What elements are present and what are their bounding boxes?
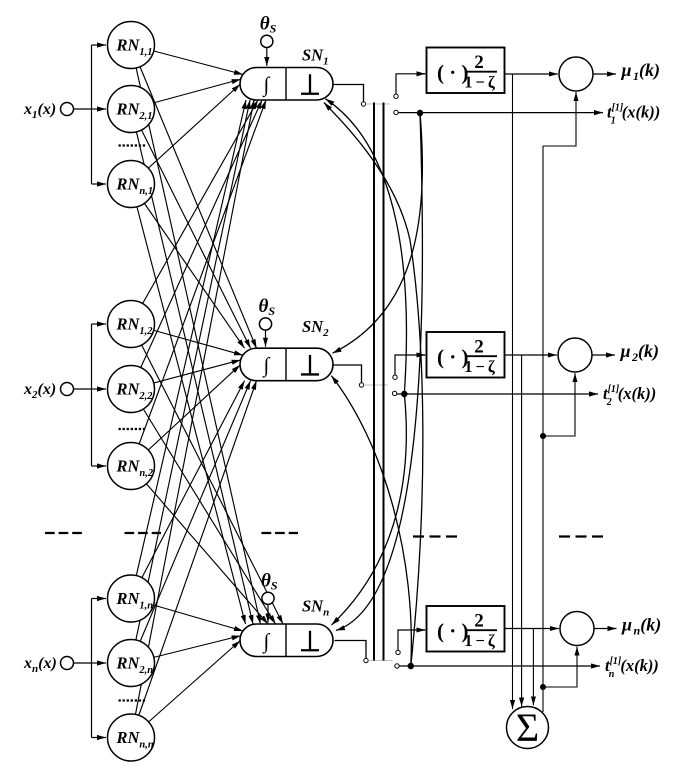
wire block n feedback down [532, 629, 534, 706]
wire branch to RNn,n [92, 737, 107, 739]
SN2 divider [285, 348, 287, 381]
wire tn feedback to SN2 [331, 376, 411, 666]
wire mu1 output [593, 73, 616, 75]
wire RNn,2 to SNn [131, 466, 268, 624]
bus line 2 [383, 103, 385, 661]
wire branch to RN2,2 [92, 388, 107, 390]
wire RN2,n to SN2 [131, 381, 251, 663]
wire SNn faint bridge [368, 660, 392, 662]
wire t2 feedback to SNn [332, 394, 407, 625]
svg-text:2: 2 [474, 52, 484, 73]
RN node RN2,2 [108, 366, 155, 413]
wire RN1,n to SN2 [131, 381, 245, 599]
wire theta_S to SNn [267, 604, 269, 622]
node SN2 output terminal [359, 383, 363, 387]
wire tap to block 1 [396, 74, 425, 94]
svg-text:μ2(k): μ2(k) [620, 341, 660, 364]
node t1 terminal [394, 110, 398, 114]
wire RNn,n to SN1 [131, 100, 254, 738]
wire theta_S to SN1 [266, 48, 268, 67]
RN node RN1,n [108, 575, 155, 622]
node tap to block 1 [394, 94, 398, 98]
wire SNn output elbow [335, 641, 367, 659]
RN node RNn,n [108, 714, 155, 761]
wire x2 branch vertical [91, 324, 93, 466]
junction tn [408, 663, 414, 669]
wire RN2,2 to SN1 [131, 100, 262, 389]
wire t2 line [397, 393, 591, 395]
dotted separator group 1 [119, 144, 146, 146]
input node x2 [61, 383, 74, 396]
wire t1 feedback to SN2 [333, 113, 423, 353]
tack symbol SN1 [301, 74, 319, 94]
wire RNn,1 to SN1 [131, 84, 240, 184]
continuation dashes 4 [413, 535, 457, 537]
tack symbol SNn [301, 631, 319, 651]
SN1 divider [285, 68, 287, 101]
svg-text:μn(k): μn(k) [621, 615, 661, 638]
wire SIGMA output vertical [542, 146, 544, 712]
label block 2 (.)2/(1-zeta) [437, 336, 498, 376]
wire RN2,2 to SNn [131, 389, 276, 624]
wire x2 input feed [74, 388, 92, 390]
wire RN2,n to SNn [131, 636, 241, 663]
input node x1 [61, 103, 74, 116]
wire branch to RN1,1 [92, 44, 107, 46]
svg-text:∫: ∫ [262, 629, 271, 654]
theta_S input circle SN2 [259, 318, 271, 330]
wire RNn,1 to SN2 [131, 184, 245, 348]
svg-text:1−ζ: 1−ζ [464, 357, 497, 376]
wire SIGMA to multiplier 1 [543, 93, 576, 147]
continuation dashes 3 [262, 532, 299, 534]
wire RNn,n to SN2 [131, 381, 257, 738]
label block n (.)2/(1-zeta) [437, 610, 498, 650]
node SNn output terminal [364, 658, 368, 662]
continuation dashes 2 [125, 532, 162, 534]
wire RN1,1 to SNn [131, 45, 261, 624]
wire RN1,2 to SNn [131, 324, 283, 624]
node SN1 output terminal [361, 102, 365, 106]
wire RN2,2 to SN2 [131, 360, 241, 389]
input node xn [61, 657, 74, 670]
summation node SIGMA [507, 707, 549, 749]
wire SN1 faint bridge [366, 103, 390, 105]
junction t2 [401, 391, 407, 397]
theta_S input circle SNn [262, 592, 274, 604]
SN unit SN2 body [240, 348, 333, 381]
wire xn input feed [74, 662, 92, 664]
wire t1 feedback to SNn [336, 113, 422, 631]
wire x1 branch vertical [91, 45, 93, 184]
SNn divider [285, 624, 287, 657]
svg-text:1−ζ: 1−ζ [464, 72, 497, 91]
wire block n to multiplier [505, 628, 559, 630]
junction t1 [417, 110, 423, 116]
wire SN2 faint bridge [364, 384, 388, 386]
gain block (1) 2/(1-z) [427, 48, 505, 94]
wire RNn,2 to SN1 [131, 100, 266, 466]
wire block 2 to multiplier [505, 354, 557, 356]
wire xn branch vertical [91, 599, 93, 738]
wire RN1,2 to SN1 [131, 100, 258, 324]
RN node RN2,1 [108, 86, 155, 133]
multiplier node row n [560, 612, 594, 646]
wire branch to RN2,n [92, 662, 107, 664]
svg-text:μ1(k): μ1(k) [621, 60, 661, 83]
node tap to block n [396, 650, 400, 654]
dotted separator group 3 [119, 699, 146, 701]
wire RN2,1 to SNn [131, 109, 253, 624]
wire block 1 feedback down [512, 74, 514, 709]
svg-text:∫: ∫ [262, 353, 271, 378]
gain block (n) 2/(1-z) [427, 606, 505, 652]
wire RN2,1 to SN2 [131, 109, 251, 348]
RN node RNn,2 [108, 443, 155, 490]
svg-text:2: 2 [474, 336, 484, 357]
RN node RN2,n [108, 640, 155, 687]
wire RN2,n to SN1 [131, 100, 250, 663]
wire RNn,1 to SNn [131, 184, 246, 624]
multiplier node row 1 [559, 57, 593, 91]
wire tn feedback to SN1 [324, 103, 423, 667]
wire tap to block n [398, 630, 425, 650]
wire tn line [399, 665, 593, 667]
wire SN2 output elbow [333, 365, 362, 383]
bus line 1 [373, 103, 375, 661]
node tap to block 2 [393, 375, 397, 379]
tack symbol SN2 [301, 355, 319, 375]
wire mu2 output [592, 354, 615, 356]
multiplier node row 2 [558, 338, 592, 372]
wire mun output [594, 628, 617, 630]
wire SN1 output elbow [333, 85, 364, 102]
svg-text:2: 2 [474, 610, 484, 631]
wire block 1 to multiplier [505, 73, 558, 75]
wire SIGMA to multiplier 2 [543, 374, 575, 437]
wire RN2,1 to SN1 [131, 79, 241, 109]
wire RNn,2 to SN2 [131, 365, 240, 466]
dotted separator group 2 [119, 428, 146, 430]
RN node RNn,1 [108, 161, 155, 208]
wire RN1,n to SNn [131, 599, 243, 632]
continuation dashes 1 [45, 532, 82, 534]
wire x1 input feed [74, 108, 92, 110]
node tn terminal [395, 664, 399, 668]
wire RNn,n to SNn [131, 641, 240, 738]
wire branch to RN2,1 [92, 108, 107, 110]
SN unit SN1 body [240, 68, 333, 101]
wire branch to RN1,2 [92, 323, 107, 325]
wire block 2 feedback down [521, 355, 523, 707]
wire RN1,n to SN1 [131, 100, 246, 599]
wire RN1,1 to SN2 [131, 45, 257, 348]
wire tap to block 2 [395, 355, 425, 375]
wire branch to RNn,2 [92, 465, 107, 467]
wire t2 feedback to SN1 [326, 99, 407, 394]
svg-text:1−ζ: 1−ζ [464, 631, 497, 650]
label block 1 (.)2/(1-zeta) [437, 52, 498, 92]
junction SIGMA branch 2 [540, 433, 546, 439]
node t2 terminal [392, 391, 396, 395]
wire RN1,1 to SN1 [131, 45, 243, 75]
wire branch to RNn,1 [92, 183, 107, 185]
wire RN1,2 to SN2 [131, 324, 243, 355]
gain block (2) 2/(1-z) [427, 332, 505, 378]
svg-text:Σ: Σ [516, 705, 539, 750]
continuation dashes 5 [559, 535, 607, 537]
RN node RN1,1 [108, 22, 155, 69]
junction SIGMA branch n [540, 684, 546, 690]
theta_S input circle SN1 [261, 35, 273, 47]
wire branch to RN1,n [92, 598, 107, 600]
wire SIGMA to multiplier n [543, 647, 577, 687]
wire theta_S to SN2 [265, 330, 267, 347]
wire t1 line [398, 112, 596, 114]
RN node RN1,2 [108, 301, 155, 348]
SN unit SNn body [240, 624, 333, 657]
svg-text:∫: ∫ [262, 72, 271, 97]
